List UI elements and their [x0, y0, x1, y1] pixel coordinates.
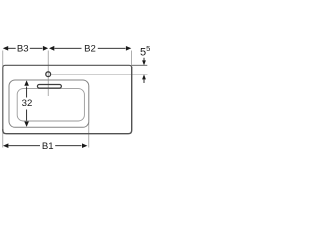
dimension 5.5 leader bottom: [142, 74, 146, 79]
svg-text:55: 55: [140, 44, 150, 59]
svg-text:B2: B2: [84, 43, 96, 54]
dimension 5.5 leader top: [143, 58, 145, 62]
svg-text:32: 32: [22, 98, 33, 109]
dimension B1: [3, 143, 8, 148]
tick top edge extended: [132, 64, 148, 66]
extension line left edge: [2, 51, 4, 148]
overflow slot: [37, 85, 61, 89]
extension line right edge: [131, 51, 133, 67]
bowl outer rim: [9, 80, 89, 127]
extension line tap axis: [47, 51, 49, 97]
extension line bowl right: [88, 122, 90, 148]
bowl inner: [17, 89, 84, 121]
dimension B2: [49, 46, 54, 51]
dimension 32: [24, 80, 29, 85]
svg-text:B3: B3: [17, 43, 29, 54]
tap hole: [46, 72, 51, 77]
dimension B3: [3, 46, 8, 51]
svg-text:B1: B1: [42, 141, 54, 152]
centerline tap hole: [51, 73, 147, 75]
washbasin outer ceramic: [3, 65, 132, 130]
